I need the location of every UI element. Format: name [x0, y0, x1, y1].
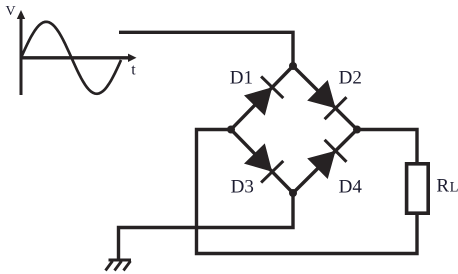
svg-text:t: t: [131, 61, 136, 78]
svg-text:D2: D2: [339, 67, 362, 88]
svg-text:D4: D4: [339, 177, 363, 198]
svg-text:R: R: [436, 175, 449, 196]
svg-text:D1: D1: [230, 67, 253, 88]
svg-text:D3: D3: [231, 176, 254, 197]
svg-text:V: V: [6, 4, 16, 19]
svg-text:L: L: [450, 179, 458, 195]
